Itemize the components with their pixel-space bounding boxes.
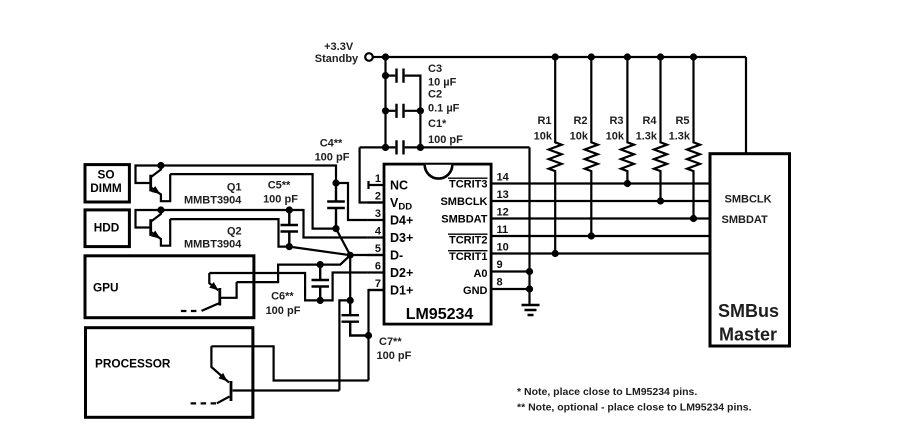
wire pin11 line (491, 235, 710, 237)
transistor Q4 (PROCESSOR) base bar (230, 381, 233, 401)
svg-text:DIMM: DIMM (90, 181, 122, 195)
svg-text:11: 11 (497, 224, 509, 236)
wire rail into SMBus Master (745, 57, 747, 154)
wire terminal to supply junction (373, 56, 386, 58)
transistor Q3 collector dashed substrate (181, 310, 201, 312)
wire pin10 TCRIT1 line (491, 252, 710, 254)
junction R3 top (624, 53, 631, 60)
svg-text:100 pF: 100 pF (428, 134, 463, 146)
svg-text:MMBT3904: MMBT3904 (184, 239, 242, 251)
wire C2 left (386, 110, 396, 112)
+3.3V standby terminal (365, 53, 373, 61)
transistor Q3 emitter (209, 273, 218, 290)
junction C5 top (286, 206, 293, 213)
svg-text:GND: GND (463, 285, 488, 297)
pin 1 stub NC (369, 181, 385, 189)
pin 6 stub (367, 271, 384, 273)
pin 3 stub (367, 219, 384, 221)
svg-text:10k: 10k (534, 131, 553, 143)
svg-text:HDD: HDD (94, 221, 120, 235)
svg-text:C2: C2 (428, 89, 442, 101)
svg-text:NC: NC (390, 179, 408, 193)
svg-text:0.1 µF: 0.1 µF (428, 103, 460, 115)
capacitor C5 (281, 210, 299, 247)
wire GPU emitter to D2+ (209, 273, 367, 301)
transistor Q2 collector (151, 210, 161, 222)
junction C4 top (332, 179, 339, 186)
svg-text:1.3k: 1.3k (636, 131, 658, 143)
resistor R1 (549, 57, 562, 254)
junction C1 right (417, 144, 424, 151)
transistor Q1 emitter (151, 174, 170, 201)
wire Q2 emitter to C5 bottom (170, 219, 289, 247)
svg-text:SMBCLK: SMBCLK (440, 196, 487, 208)
svg-text:* Note, place close to LM95234: * Note, place close to LM95234 pins. (517, 386, 697, 398)
svg-text:10: 10 (497, 242, 509, 254)
svg-text:GPU: GPU (93, 281, 119, 295)
capacitor C1 (397, 140, 404, 154)
SO DIMM box (85, 165, 129, 202)
svg-text:A0: A0 (473, 268, 487, 280)
capacitor C6 (312, 265, 330, 301)
svg-text:Standby: Standby (315, 53, 359, 65)
wire VDD supply (360, 147, 384, 202)
junction GND ground (526, 285, 533, 292)
wire PROCESSOR emitter to D1+ (211, 346, 368, 380)
wire D- vertical down (349, 255, 351, 300)
pin 5 stub (367, 254, 384, 256)
svg-text:SMBus: SMBus (718, 301, 779, 321)
junction C6 bottom (317, 297, 324, 304)
pin 7 stub (369, 289, 385, 291)
wire C3 right (405, 76, 421, 111)
svg-text:Master: Master (719, 325, 777, 345)
svg-text:9: 9 (497, 259, 503, 271)
capacitor C3 (397, 69, 404, 83)
wire C1 right to ground vertical (405, 146, 530, 148)
overline TCRIT3 (448, 177, 488, 179)
svg-text:6: 6 (375, 261, 381, 273)
junction C3 left (382, 72, 389, 79)
svg-text:TCRIT1: TCRIT1 (449, 251, 488, 263)
svg-text:TCRIT2: TCRIT2 (449, 235, 488, 247)
svg-text:7: 7 (375, 278, 381, 290)
junction R4 top (657, 53, 664, 60)
svg-text:PROCESSOR: PROCESSOR (95, 357, 171, 371)
junction R3 bottom (624, 180, 631, 187)
svg-text:D2+: D2+ (390, 266, 413, 280)
wire PROCESSOR base riser to D- (339, 300, 350, 390)
svg-text:10 µF: 10 µF (428, 77, 457, 89)
svg-text:1: 1 (375, 173, 381, 185)
capacitor C7 (342, 300, 369, 335)
svg-text:TCRIT3: TCRIT3 (449, 179, 488, 191)
svg-text:1.3k: 1.3k (669, 131, 691, 143)
transistor Q4 collector dashed substrate (191, 402, 217, 404)
wire pin8 GND to ground (491, 288, 530, 290)
svg-text:C1*: C1* (428, 118, 447, 130)
svg-text:R2: R2 (573, 115, 587, 127)
GPU box (85, 256, 254, 318)
junction R2 bottom (588, 232, 595, 239)
SMBus Master box (710, 154, 790, 346)
svg-text:D4+: D4+ (390, 214, 413, 228)
junction R5 bottom (690, 215, 697, 222)
wire D- node to pin 5 (350, 254, 384, 256)
arrowhead Q1 emitter (151, 186, 160, 194)
resistor R4 (654, 57, 667, 201)
ground (522, 305, 540, 315)
svg-text:8: 8 (497, 277, 503, 289)
svg-text:LM95234: LM95234 (406, 306, 474, 323)
svg-text:R5: R5 (675, 115, 689, 127)
svg-text:D1+: D1+ (390, 284, 413, 298)
wire Q2 node to D3+ route (161, 210, 368, 238)
wire supply vertical (384, 57, 386, 147)
arrowhead Q4 emitter (218, 373, 227, 382)
svg-text:D-: D- (390, 249, 403, 263)
resistor R2 (585, 57, 598, 236)
transistor Q1 base-collector tie wire (136, 166, 161, 184)
wire pin9 A0 to ground (491, 270, 530, 272)
svg-text:100 pF: 100 pF (377, 350, 412, 362)
junction C4 bottom (332, 225, 339, 232)
arrowhead Q3 emitter (209, 282, 218, 290)
wire pin7 D1+ riser (369, 290, 385, 381)
transistor Q3 base lead (221, 282, 237, 298)
transistor Q1 collector (151, 166, 161, 178)
svg-text:R3: R3 (609, 115, 623, 127)
wire Q1 node to D4+ route (161, 166, 368, 221)
wire C5 bottom slope to D- node (289, 247, 350, 256)
wire C1 left (360, 146, 396, 148)
junction R1 top (552, 53, 559, 60)
transistor Q1 base bar (149, 175, 152, 192)
svg-text:R4: R4 (642, 115, 657, 127)
svg-text:5: 5 (375, 243, 381, 255)
junction R5 top (690, 53, 697, 60)
wire pin13 SMBCLK line (491, 200, 710, 202)
svg-text:12: 12 (497, 207, 509, 219)
svg-text:100 pF: 100 pF (315, 152, 350, 164)
svg-text:SMBDAT: SMBDAT (441, 214, 488, 226)
junction Q2 node (157, 206, 164, 213)
svg-text:SMBCLK: SMBCLK (725, 194, 772, 206)
svg-text:C5**: C5** (268, 180, 291, 192)
transistor Q2 base bar (149, 219, 152, 236)
wire pin12 SMBDAT line (491, 217, 710, 219)
junction C5 bottom (286, 243, 293, 250)
pin 4 stub (367, 236, 384, 238)
junction C6 top (317, 261, 324, 268)
resistor R3 (621, 57, 634, 184)
junction supply (382, 53, 389, 60)
junction A0 ground (526, 268, 533, 275)
svg-text:C3: C3 (428, 63, 442, 75)
capacitor C2 (397, 104, 404, 118)
junction R2 top (588, 53, 595, 60)
resistor R5 (687, 57, 700, 219)
svg-text:C7**: C7** (379, 336, 402, 348)
pin 2 stub (367, 201, 384, 203)
+3.3V rail wire (386, 56, 747, 58)
transistor Q4 emitter (211, 346, 229, 382)
transistor Q3 (GPU) base bar (218, 288, 221, 306)
svg-text:MMBT3904: MMBT3904 (184, 195, 242, 207)
junction Q1 node (157, 162, 164, 169)
wire C2 right (405, 111, 421, 148)
svg-text:C6**: C6** (271, 291, 294, 303)
wire Q1 emitter to D- (170, 174, 336, 229)
svg-text:+3.3V: +3.3V (324, 41, 354, 53)
junction R4 bottom (657, 197, 664, 204)
wire C3 left (386, 74, 396, 76)
HDD box (85, 210, 129, 247)
junction C2 right (417, 107, 424, 114)
wire pin14 TCRIT3 line (491, 182, 710, 184)
capacitor C4 (327, 183, 345, 229)
junction C1 left (382, 144, 389, 151)
transistor Q2 emitter (151, 219, 170, 246)
svg-text:100 pF: 100 pF (263, 194, 298, 206)
wire ground vertical (528, 147, 530, 305)
arrowhead Q2 emitter (151, 231, 160, 239)
svg-text:10k: 10k (606, 131, 625, 143)
transistor Q2 base-collector tie wire (136, 210, 161, 228)
PROCESSOR box (86, 328, 253, 418)
wire GPU base to D- (237, 255, 351, 282)
transistor Q4 collector (217, 397, 230, 404)
svg-text:D3+: D3+ (390, 231, 413, 245)
svg-text:14: 14 (497, 172, 510, 184)
transistor Q3 collector (202, 303, 220, 311)
svg-text:SO: SO (97, 168, 114, 182)
junction C7 top (347, 297, 354, 304)
svg-text:4: 4 (375, 226, 382, 238)
junction C7 bottom (365, 332, 372, 339)
overline TCRIT1 (448, 250, 488, 252)
svg-text:SMBDAT: SMBDAT (722, 214, 769, 226)
svg-text:Q1: Q1 (227, 182, 242, 194)
wire C4 bottom diagonal to D- node (336, 229, 350, 256)
svg-text:R1: R1 (537, 115, 551, 127)
junction R1 bottom (552, 250, 559, 257)
svg-text:13: 13 (497, 189, 509, 201)
transistor Q4 base lead (233, 389, 340, 391)
svg-text:10k: 10k (570, 131, 589, 143)
svg-text:** Note, optional - place clos: ** Note, optional - place close to LM952… (517, 402, 752, 414)
svg-text:2: 2 (375, 191, 381, 203)
svg-text:C4**: C4** (320, 138, 343, 150)
overline TCRIT2 (448, 233, 488, 235)
svg-text:100 pF: 100 pF (266, 305, 301, 317)
node D- (347, 252, 354, 259)
svg-text:3: 3 (375, 208, 381, 220)
IC U1 LM95234 (384, 164, 491, 324)
junction C2 left (382, 107, 389, 114)
svg-text:Q2: Q2 (227, 226, 242, 238)
